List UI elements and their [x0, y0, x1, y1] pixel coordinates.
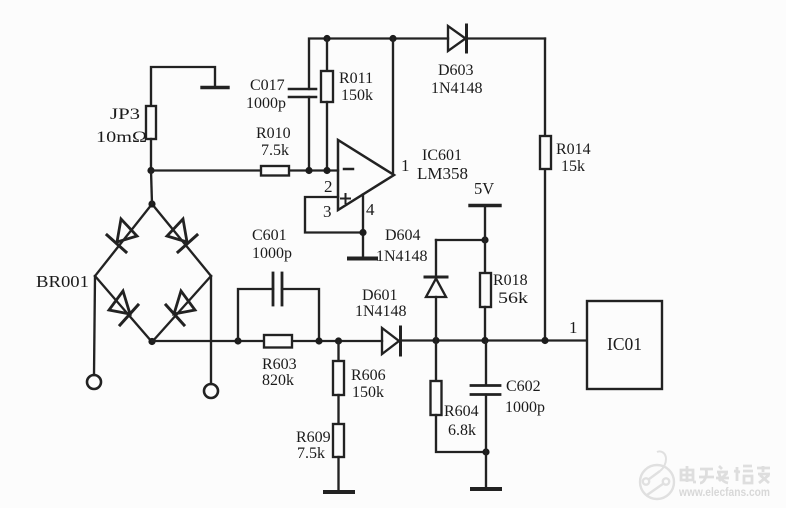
- svg-text:5V: 5V: [474, 179, 494, 198]
- wire inverting input: [151, 169, 338, 171]
- svg-text:150k: 150k: [341, 87, 373, 104]
- svg-text:IC01: IC01: [607, 334, 642, 354]
- node R018 bottom: [481, 337, 488, 344]
- svg-text:D603: D603: [438, 62, 474, 79]
- op-amp IC601: [338, 140, 394, 210]
- diode D601: [382, 327, 401, 355]
- svg-text:1: 1: [401, 156, 410, 175]
- diode bridge bottom-right: [166, 291, 195, 325]
- svg-text:1000p: 1000p: [246, 95, 286, 112]
- svg-text:6.8k: 6.8k: [448, 422, 476, 439]
- wire pin4 to ground: [362, 195, 364, 258]
- diode D604: [425, 240, 447, 341]
- svg-text:C602: C602: [506, 378, 541, 395]
- capacitor C017: [289, 89, 316, 171]
- svg-text:R603: R603: [262, 356, 297, 373]
- svg-text:1N4148: 1N4148: [376, 248, 428, 265]
- svg-text:R604: R604: [444, 403, 479, 420]
- wire bridge top to JP3 node: [151, 171, 152, 205]
- wire right rail down: [544, 39, 546, 341]
- diode D603: [448, 25, 467, 52]
- resistor R018: [480, 240, 491, 341]
- svg-text:C017: C017: [250, 77, 285, 94]
- svg-text:2: 2: [324, 177, 333, 196]
- svg-text:7.5k: 7.5k: [297, 445, 325, 462]
- svg-text:150k: 150k: [352, 384, 384, 401]
- wire D604 to 5V rail: [436, 239, 485, 241]
- resistor R603: [264, 335, 292, 348]
- node top R011 junction: [323, 35, 330, 42]
- node R606 top: [335, 337, 342, 344]
- svg-text:15k: 15k: [561, 158, 585, 175]
- svg-text:4: 4: [366, 200, 375, 219]
- resistor R011: [321, 39, 333, 171]
- diode bridge top-right: [167, 219, 197, 252]
- svg-text:LM358: LM358: [417, 164, 468, 183]
- capacitor C601 loop: [238, 273, 319, 341]
- ground R609: [325, 490, 353, 494]
- svg-text:R606: R606: [351, 367, 386, 384]
- node C601 right: [315, 337, 322, 344]
- node R011 input junction: [323, 167, 330, 174]
- watermark elecfans logo: [640, 451, 674, 499]
- terminal right: [204, 384, 218, 398]
- svg-text:JP3: JP3: [110, 106, 140, 123]
- svg-text:1N4148: 1N4148: [355, 303, 407, 320]
- resistor R014: [540, 136, 551, 169]
- node bridge top: [148, 200, 155, 207]
- svg-text:C601: C601: [252, 227, 287, 244]
- node C017 input junction: [305, 167, 312, 174]
- diode bridge bottom-left: [109, 291, 138, 325]
- svg-text:56k: 56k: [498, 290, 528, 307]
- wire main output line: [152, 339, 587, 342]
- node pin4 loop junction: [359, 229, 366, 236]
- svg-text:R018: R018: [493, 272, 528, 289]
- wire JP3 top to ground: [151, 67, 215, 106]
- node R604/C602 bottom: [482, 448, 489, 455]
- IC01 box: [587, 301, 662, 389]
- svg-text:1: 1: [569, 318, 578, 337]
- svg-text:D601: D601: [362, 287, 398, 304]
- svg-text:IC601: IC601: [422, 147, 462, 164]
- svg-text:BR001: BR001: [36, 272, 89, 291]
- svg-text:10mΩ: 10mΩ: [96, 129, 147, 146]
- node top output junction: [389, 35, 396, 42]
- ground op-amp: [349, 257, 376, 261]
- wire op-amp output to rail: [392, 39, 394, 174]
- svg-text:R014: R014: [556, 141, 591, 158]
- bridge BR001 arms: [95, 204, 211, 342]
- node 5V junction: [481, 236, 488, 243]
- terminal left: [87, 375, 101, 389]
- power 5V: [470, 206, 500, 241]
- svg-text:1000p: 1000p: [505, 399, 545, 416]
- node C601 left: [234, 337, 241, 344]
- wire non-inverting loop: [305, 197, 363, 233]
- watermark chinese text: [681, 466, 770, 483]
- resistor R010: [261, 166, 289, 176]
- svg-text:R609: R609: [296, 429, 331, 446]
- node bridge bottom: [148, 338, 155, 345]
- svg-text:3: 3: [323, 202, 332, 221]
- resistor R604: [431, 341, 487, 453]
- wire left AC terminal: [94, 276, 95, 375]
- svg-text:1N4148: 1N4148: [431, 80, 483, 97]
- node D604/R604 junction: [432, 337, 439, 344]
- wire right AC terminal: [210, 276, 212, 384]
- svg-text:www.elecfans.com: www.elecfans.com: [678, 487, 770, 499]
- ground C602: [472, 487, 500, 491]
- svg-text:820k: 820k: [262, 372, 294, 389]
- svg-text:1000p: 1000p: [252, 245, 292, 262]
- svg-text:R010: R010: [256, 125, 291, 142]
- resistor R609: [333, 424, 344, 491]
- node JP3 / input: [147, 167, 154, 174]
- wire top feedback rail: [309, 39, 545, 90]
- node main/IC01 junction: [541, 337, 548, 344]
- ground top: [202, 86, 228, 89]
- resistor R606: [333, 341, 344, 424]
- diode bridge top-left: [107, 219, 137, 252]
- capacitor C602: [471, 341, 500, 489]
- svg-text:R011: R011: [339, 70, 373, 87]
- svg-text:7.5k: 7.5k: [261, 142, 289, 159]
- resistor JP3: [146, 106, 156, 171]
- svg-text:D604: D604: [385, 227, 421, 244]
